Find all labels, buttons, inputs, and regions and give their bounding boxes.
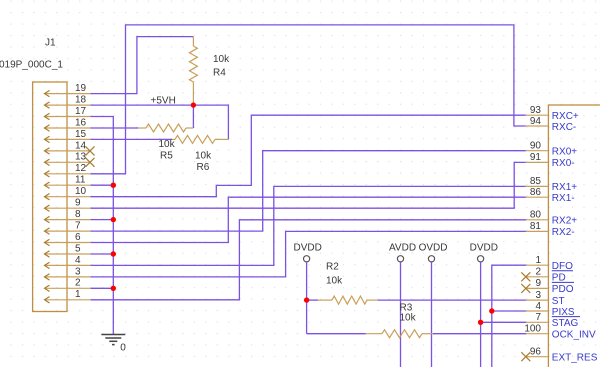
U1 pin 93 RXC+: [526, 105, 579, 122]
power symbol AVDD at x=400.5: [389, 243, 416, 262]
svg-text:80: 80: [530, 210, 542, 221]
svg-text:6: 6: [75, 232, 81, 243]
wire: J1 pin 9 across, up to U pin 91 RX0-: [91, 162, 526, 208]
svg-text:10: 10: [75, 186, 87, 197]
junction ground rail at J1 pin 2: [111, 286, 116, 291]
svg-text:RX0+: RX0+: [552, 147, 577, 158]
junction ground rail at J1 pin 8: [111, 217, 116, 222]
svg-text:90: 90: [530, 141, 542, 152]
wire: J1 pin 10 staircase to U pin 93 RXC+: [91, 115, 526, 197]
J1 pin 16 stub with arrow: [45, 117, 91, 131]
J1 pin 9 stub with arrow: [45, 198, 91, 212]
svg-text:J1: J1: [45, 37, 56, 48]
U1 pin 91 RX0-: [526, 152, 575, 169]
svg-text:16: 16: [75, 117, 87, 128]
power symbol DVDD at x=306.6: [294, 243, 322, 262]
svg-text:4: 4: [75, 255, 81, 266]
svg-text:RX2-: RX2-: [552, 227, 575, 238]
wire: R3 right to U pin 100 OCK_INV: [433, 333, 527, 335]
no-connect X on U1 pin 9: [521, 284, 530, 293]
U1 pin 81 RX2-: [526, 221, 575, 238]
no-connect X on J1 pin 13: [86, 158, 95, 167]
svg-text:85: 85: [530, 176, 542, 187]
svg-text:96: 96: [530, 347, 542, 358]
svg-text:2: 2: [535, 267, 541, 278]
U1 pin 90 RX0+: [526, 141, 577, 158]
svg-text:3: 3: [75, 266, 81, 277]
svg-text:10k: 10k: [213, 54, 230, 65]
ground 0 symbol: [101, 335, 126, 354]
svg-text:7: 7: [535, 312, 541, 323]
U1 pin 94 RXC-: [526, 116, 576, 133]
U1 pin 100 OCK_INV: [524, 324, 596, 341]
svg-text:R4: R4: [213, 68, 226, 79]
U1 pin 86 RX1-: [526, 187, 575, 204]
svg-text:11: 11: [75, 175, 86, 186]
power symbol DVDD at x=480.6: [470, 243, 498, 262]
power symbol OVDD at x=431.5: [419, 243, 448, 262]
junction +5VH node: [191, 102, 196, 107]
no-connect X on U1 pin 96: [521, 352, 530, 361]
wire: J1 pin 19 up and over to R4 top: [91, 37, 194, 94]
J1 pin 10 stub with arrow: [45, 186, 91, 200]
svg-text:19: 19: [75, 83, 87, 94]
svg-text:+5VH: +5VH: [151, 96, 176, 107]
wire: J1 pin 7 across, up to U pin 90 RX0+: [91, 151, 526, 231]
J1 pin 7 stub with arrow: [45, 221, 91, 235]
J1 pin 11 stub with arrow: [45, 175, 91, 189]
U1 pin 7 STAG: [526, 312, 579, 329]
junction DVDD/STAG rail: [478, 320, 483, 325]
wire: J1 pin 8 to ground rail: [91, 219, 114, 221]
J1 pin 5 stub with arrow: [45, 243, 91, 257]
J1 pin 3 stub with arrow: [45, 266, 91, 280]
svg-text:10k: 10k: [195, 151, 212, 162]
svg-text:9: 9: [75, 198, 81, 209]
svg-text:R5: R5: [160, 151, 173, 162]
J1 pin 19 stub with arrow: [45, 83, 91, 97]
wire: J1 pin 5 to ground rail: [91, 253, 114, 255]
wire: U pin 1 DFO down to PIXS rail and off page: [492, 265, 527, 367]
resistor R5 10k: [138, 124, 193, 162]
svg-text:ST: ST: [552, 296, 565, 307]
svg-text:14: 14: [75, 140, 87, 151]
svg-text:12: 12: [75, 163, 87, 174]
J1 pin 17 stub with arrow: [45, 106, 91, 120]
svg-text:1: 1: [535, 255, 541, 266]
U1 pin 2 PD: [526, 267, 574, 284]
svg-text:91: 91: [530, 152, 542, 163]
wire: J1 pin 1 across, up to U pin 80 RX2+: [91, 220, 527, 300]
wire: AVDD rail down off page: [400, 262, 402, 367]
U1 pin 9 PDO: [526, 278, 574, 295]
wire: J1 pin 15 to R6 left: [91, 138, 172, 140]
wire: R2 right to U pin 3 ST: [378, 299, 527, 301]
junction ground rail at J1 pin 11: [111, 183, 116, 188]
svg-text:RX1-: RX1-: [552, 193, 575, 204]
resistor R6 10k: [172, 135, 228, 173]
svg-text:18: 18: [75, 95, 87, 106]
svg-text:93: 93: [530, 105, 542, 116]
U1 pin 1 DFO: [526, 255, 573, 272]
junction DFO/PIXS rail: [489, 308, 494, 313]
svg-text:3: 3: [535, 290, 541, 301]
svg-text:AVDD: AVDD: [389, 243, 416, 254]
no-connect X on J1 pin 14: [86, 146, 95, 155]
svg-text:7: 7: [75, 221, 81, 232]
junction DVDD/R2: [304, 297, 309, 302]
svg-text:13: 13: [75, 152, 87, 163]
svg-text:1: 1: [75, 289, 81, 300]
J1 pin 13 stub with arrow: [45, 152, 91, 166]
resistor R2 10k (DVDD to ST): [307, 262, 378, 304]
wire: J1 pin 4 across, up to U pin 85 RX1+: [91, 186, 526, 265]
svg-text:R2: R2: [326, 262, 339, 273]
svg-text:OCK_INV: OCK_INV: [552, 330, 596, 341]
wire: J1 pin 17 to ground rail: [91, 117, 114, 335]
J1 pin 12 stub with arrow: [45, 163, 91, 177]
op-amp/IC U1 body (clipped right): [548, 105, 600, 367]
no-connect X on U1 pin 2: [521, 272, 530, 281]
J1 pin 2 stub with arrow: [45, 278, 91, 292]
U1 pin 3 ST: [526, 290, 565, 307]
wire: R5 right riser to +5VH junction: [192, 105, 194, 128]
svg-text:10k: 10k: [159, 139, 176, 150]
svg-text:RXC+: RXC+: [552, 111, 579, 122]
wire: DVDD rail down off page with STAG tap: [480, 262, 482, 367]
svg-text:STAG: STAG: [552, 318, 579, 329]
wire: J1 pin 6 across, up to U pin 86 RX1-: [91, 197, 526, 242]
svg-text:RX1+: RX1+: [552, 182, 577, 193]
wire: J1 pin 11 to ground rail: [91, 184, 114, 186]
svg-text:0: 0: [120, 342, 126, 353]
J1 pin 14 stub with arrow: [45, 140, 91, 154]
wire: J1 pin 2 to ground rail: [91, 287, 114, 289]
svg-text:9: 9: [535, 278, 541, 289]
svg-text:DVDD: DVDD: [470, 243, 498, 254]
wire: J1 pin 12 up and across top to U pin 94 RXC-: [91, 25, 526, 174]
svg-text:RX0-: RX0-: [552, 158, 575, 169]
wire: J1 pin 16 to R5 left: [91, 127, 138, 129]
svg-text:RXC-: RXC-: [552, 122, 576, 133]
svg-text:100: 100: [524, 324, 541, 335]
svg-text:94: 94: [530, 116, 542, 127]
svg-text:86: 86: [530, 187, 542, 198]
U1 pin 4 PIXS: [526, 301, 580, 318]
svg-text:8: 8: [75, 209, 81, 220]
wire: J1 pin 3 across, up to U pin 81 RX2-: [91, 231, 527, 277]
svg-text:RX2+: RX2+: [552, 216, 577, 227]
junction ground rail at J1 pin 5: [111, 251, 116, 256]
svg-text:R6: R6: [197, 162, 210, 173]
wire: OVDD rail down off page: [431, 262, 433, 367]
wire: PIXS tap to U pin 4: [492, 310, 527, 312]
wire: +5VH net J1 pin 18 across to R6 riser: [91, 105, 229, 139]
U1 pin 96 EXT_RES: [526, 347, 598, 364]
wire: DVDD rail down to R2/R3: [306, 262, 308, 334]
svg-text:5: 5: [75, 243, 81, 254]
wire: STAG tap to U pin 7: [481, 321, 527, 323]
J1 pin 8 stub with arrow: [45, 209, 91, 223]
J1 pin 15 stub with arrow: [45, 129, 91, 143]
svg-text:17: 17: [75, 106, 87, 117]
J1 pin 4 stub with arrow: [45, 255, 91, 269]
svg-text:2: 2: [75, 278, 81, 289]
resistor R3 10k (DVDD to OCK_INV): [307, 303, 433, 338]
svg-text:81: 81: [530, 221, 542, 232]
svg-text:10k: 10k: [400, 312, 417, 323]
svg-text:PDO: PDO: [552, 284, 574, 295]
svg-text:DVDD: DVDD: [294, 243, 322, 254]
J1 pin 1 stub with arrow: [45, 289, 91, 303]
svg-text:4: 4: [535, 301, 541, 312]
svg-text:EXT_RES: EXT_RES: [552, 353, 598, 364]
resistor R4 10k vertical: [189, 37, 230, 106]
connector J1 body: [33, 82, 67, 312]
svg-text:10k: 10k: [326, 275, 343, 286]
J1 pin 6 stub with arrow: [45, 232, 91, 246]
svg-text:OVDD: OVDD: [419, 243, 448, 254]
U1 pin 85 RX1+: [526, 176, 577, 193]
U1 pin 80 RX2+: [526, 210, 577, 227]
svg-text:019P_000C_1: 019P_000C_1: [0, 59, 63, 70]
svg-text:15: 15: [75, 129, 87, 140]
J1 pin 18 stub with arrow: [45, 95, 91, 109]
